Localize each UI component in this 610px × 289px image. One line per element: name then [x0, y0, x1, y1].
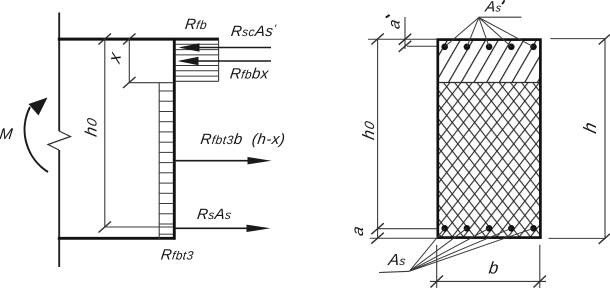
label h0 (right figure, rotated)	[359, 118, 378, 141]
dimension x line (compression zone depth, left edge of block)	[123, 34, 136, 89]
svg-text:RsAs: RsAs	[196, 206, 233, 223]
bottom tension face thick line	[58, 237, 176, 240]
label As' with leader line	[479, 0, 522, 17]
compression block bottom edge	[129, 82, 175, 84]
leader fan to bottom rebars	[409, 228, 533, 271]
label Rfbt3	[160, 246, 195, 263]
break symbol (zigzag) on vertical line	[48, 131, 71, 150]
label M	[0, 126, 14, 143]
zone separation line	[438, 82, 540, 84]
svg-text:RscAs′: RscAs′	[230, 23, 277, 40]
extension line beam bottom to left	[370, 237, 437, 239]
rebar dots top As'	[441, 44, 536, 51]
label h0 (left figure, rotated)	[82, 115, 101, 138]
beam cross-section outline	[438, 40, 541, 238]
svg-text:Rfbbx: Rfbbx	[229, 65, 270, 82]
extension lines for h dimension	[549, 39, 606, 239]
label a (rotated)	[349, 225, 367, 238]
leader fan to top rebars	[445, 18, 534, 47]
label RsAs	[196, 206, 233, 223]
node: rebar level thin line left figure	[105, 226, 174, 228]
label As with leader line	[379, 251, 409, 273]
extension line top of section to h0 line	[368, 38, 437, 40]
dimension b line with ticks	[430, 276, 546, 288]
arrow Rfb bx (points left)	[178, 57, 272, 65]
svg-text:M: M	[0, 126, 14, 143]
arrow RscAs' (points left)	[179, 43, 272, 51]
svg-text:Rfbt3: Rfbt3	[160, 246, 195, 263]
top compression face thick line	[58, 38, 219, 41]
dimension a' line	[399, 17, 412, 52]
upper zone single diagonal hatch fill	[438, 40, 541, 83]
rebar dots bottom As	[441, 225, 536, 232]
label Rfb bx	[229, 65, 270, 82]
svg-text:h0: h0	[82, 115, 101, 138]
wire: main left vertical member line	[58, 13, 60, 268]
svg-text:As: As	[387, 251, 407, 269]
label a' (rotated)	[385, 15, 403, 31]
dimension h0 line (right figure)	[371, 34, 384, 244]
dimension b extension verticals	[437, 245, 540, 288]
compression stress box with horizontal hatch	[176, 39, 219, 81]
svg-text:Rfb: Rfb	[184, 16, 208, 33]
dimension h line	[599, 35, 610, 244]
extension line bottom rebar level to h0 line	[378, 228, 437, 230]
label h (rotated)	[579, 120, 600, 135]
label Rfbt3b (h-x)	[200, 131, 287, 148]
extension line top rebar level to a' line	[407, 45, 437, 47]
lower zone crosshatch fill	[438, 83, 541, 238]
label RscAs'	[230, 23, 277, 40]
label x (rotated)	[104, 48, 125, 66]
label Rfb	[184, 16, 208, 33]
svg-text:As: As	[483, 0, 502, 15]
label b	[488, 259, 500, 278]
svg-text:Rfbt3b (h-x): Rfbt3b (h-x)	[200, 131, 287, 148]
arrow Rfbt3 b (h-x) (points right)	[174, 157, 271, 164]
arrow RsAs (points right)	[174, 225, 270, 232]
tension stress ladder strip	[159, 83, 173, 239]
svg-text:h0: h0	[359, 118, 378, 141]
thick vertical section line	[173, 38, 176, 239]
moment arc M	[25, 98, 48, 173]
dimension h0 line (left figure)	[99, 34, 112, 233]
